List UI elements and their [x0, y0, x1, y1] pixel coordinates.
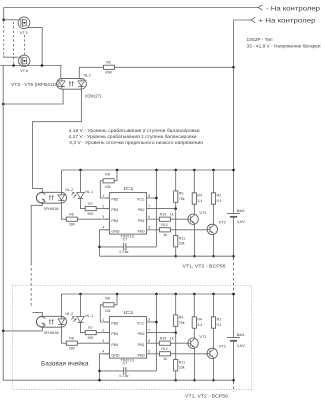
wire: cell1 SFH6156 LED anode from chain	[33, 189, 43, 193]
svg-text:VT1: VT1	[199, 334, 206, 339]
svg-text:+ На контролер: + На контролер	[259, 18, 317, 25]
svg-text:Bat1: Bat1	[237, 208, 246, 213]
svg-text:IC1: IC1	[124, 310, 135, 315]
svg-text:VT2: VT2	[219, 220, 226, 225]
resistor cell1 R6	[66, 217, 77, 221]
wire: cell1 VT1 emitter to bottom rail	[193, 225, 195, 257]
wire: cell2 VT1 emitter to bottom rail	[193, 349, 195, 381]
wire: cell1 GND pin to bottom rail	[100, 230, 110, 256]
svg-text:5: 5	[148, 350, 150, 354]
svg-text:VT1, VT2 - BCP56: VT1, VT2 - BCP56	[183, 263, 227, 268]
wire: cell1 R11 to bottom rail	[175, 247, 177, 256]
svg-text:PB0: PB0	[138, 353, 145, 357]
resistor cell1 R9	[174, 191, 178, 202]
svg-text:1k: 1k	[170, 213, 174, 217]
svg-text:R2: R2	[217, 318, 222, 322]
svg-text:R7: R7	[88, 326, 93, 330]
pin cell2 1 stub	[105, 321, 110, 323]
svg-text:PB4: PB4	[111, 219, 118, 223]
wire: cell1 PB0 to R12	[147, 229, 160, 231]
resistor cell2 R2	[211, 317, 215, 328]
svg-text:PB1: PB1	[138, 343, 145, 347]
resistor R5	[104, 65, 115, 69]
pin cell1 1 stub	[105, 197, 110, 199]
resistor cell2 R7	[85, 331, 96, 335]
svg-text:VT1: VT1	[199, 210, 206, 215]
svg-text:4: 4	[102, 226, 104, 230]
resistor cell1 R8	[103, 179, 114, 183]
wire: cell1 R6 to PB4	[77, 218, 109, 220]
svg-text:SFH6156: SFH6156	[44, 206, 60, 211]
svg-text:Bat1: Bat1	[237, 332, 246, 337]
svg-text:VOM1271: VOM1271	[85, 94, 103, 99]
transistor cell1 VT2 BCP56	[207, 224, 217, 234]
wire: cell1 battery top lead	[233, 170, 235, 214]
node: cell2 battery bottom junction	[232, 379, 235, 382]
svg-text:6: 6	[148, 215, 150, 219]
svg-text:- На контролер: - На контролер	[266, 5, 321, 12]
svg-text:3,4: 3,4	[197, 323, 202, 327]
wire: cell1 SFH6156 emitter to R6	[62, 203, 67, 219]
svg-text:VT.6: VT.6	[20, 68, 28, 73]
svg-text:9,1: 9,1	[217, 199, 222, 203]
wire: dashed left rail (hidden gates)	[3, 22, 5, 56]
wire: dashed battery chain below	[233, 382, 235, 393]
svg-text:PB3: PB3	[111, 208, 118, 212]
wire: cell2 SFH6156 LED anode from chain	[33, 313, 43, 317]
svg-text:33k: 33k	[179, 242, 185, 246]
svg-text:0,1 мк: 0,1 мк	[119, 374, 128, 378]
wire: cell2 SFH6156 emitter to R6	[62, 327, 67, 343]
wire: cell2 R4 to VT1 collector	[193, 328, 195, 338]
svg-text:HL.2: HL.2	[65, 188, 73, 192]
svg-text:R4: R4	[197, 194, 202, 198]
node: cell1 R9 top junction	[174, 169, 177, 172]
pin cell2 2 stub	[105, 332, 110, 334]
svg-text:SFH6156: SFH6156	[44, 330, 60, 335]
resistor cell1 R11	[174, 236, 178, 247]
wire: cell2 VCC pin stub	[147, 321, 157, 323]
svg-text:1k: 1k	[170, 337, 174, 341]
wire: + rail down to cell 1	[233, 67, 235, 170]
node: gate bus junction	[12, 64, 15, 67]
wire: cell1 C7 right lead to VCC	[126, 246, 156, 248]
wire: cell1 R7 to PB3	[96, 208, 109, 210]
wire: cell2 R2 top lead	[213, 294, 215, 317]
node: cell1 C7 gnd junction	[98, 246, 101, 249]
wire: dashed chain link between cells	[30, 263, 32, 307]
resistor cell1 R2	[211, 193, 215, 204]
transistor VT6 (IRFB4110)	[19, 55, 30, 66]
node: cell2 R4 top junction	[193, 293, 196, 296]
node: cell2 VT2 emitter junction	[212, 379, 215, 382]
wire: cell2 R9 to PB2 node	[175, 326, 177, 332]
battery cell1 Bat1	[227, 213, 240, 215]
svg-text:R5: R5	[106, 61, 111, 65]
resistor cell2 R4	[192, 317, 196, 328]
svg-text:2: 2	[102, 205, 104, 209]
optocoupler cell1 SFH6156	[37, 192, 67, 203]
svg-text:PB2: PB2	[138, 208, 145, 212]
svg-text:R12: R12	[161, 223, 168, 227]
wire: cell1 cell - rail	[100, 255, 234, 257]
node: cell2 HL1 anode junction	[79, 293, 82, 296]
wire: HL2 cathode down to left rail	[3, 89, 63, 104]
wire: cell1 + rail to R8	[114, 170, 117, 181]
node: cell1 VT2 emitter junction	[212, 255, 215, 258]
pin cell2 4 stub	[105, 353, 110, 355]
boundary: base cell dashed box	[13, 285, 252, 389]
svg-text:C7: C7	[123, 362, 128, 366]
node: cell2 divider node	[174, 331, 177, 334]
wire: cell2 LED cathode to left rail	[3, 327, 42, 331]
wire: cell2 R10 to VT1 base	[170, 342, 189, 344]
svg-text:4: 4	[102, 350, 104, 354]
wire: cell1 HL1 cathode to R7	[81, 198, 86, 208]
svg-text:R6: R6	[69, 213, 74, 217]
wire: cell1 PB1 to R10	[147, 218, 160, 220]
wire: cell1 SFH6156 collector up to + rail	[61, 170, 63, 192]
wire: cell1 R4 to VT1 collector	[193, 204, 195, 214]
pin cell1 2 stub	[105, 208, 110, 210]
svg-text:R11: R11	[179, 236, 185, 240]
svg-text:HL2: HL2	[84, 72, 91, 77]
svg-text:R8: R8	[105, 296, 110, 300]
svg-text:3,3 V - Уровень отсечки пред: 3,3 V - Уровень отсечки предельного низк…	[69, 140, 203, 145]
wire: cell2 R4 top lead	[193, 294, 195, 317]
svg-text:390: 390	[69, 223, 75, 227]
node: VT3 gate junction	[2, 19, 4, 22]
svg-text:PB0: PB0	[138, 229, 145, 233]
wire: VT3 gate	[4, 19, 18, 21]
svg-text:PB2: PB2	[138, 332, 145, 336]
node: cell1 R4 top junction	[193, 169, 196, 172]
svg-text:9,1: 9,1	[217, 323, 222, 327]
arrows: cell2 HL1 emission	[71, 316, 74, 319]
wire: cell1 cell + rail	[62, 169, 234, 171]
svg-text:R7: R7	[88, 202, 93, 206]
node: cell2 VCC pin junction	[155, 321, 158, 324]
wire: cell1 R9 to PB2 node	[175, 202, 177, 208]
svg-text:4,17 V - Уровень срабатывания: 4,17 V - Уровень срабатывания 1 ступени …	[69, 134, 198, 139]
svg-text:6: 6	[148, 339, 150, 343]
connector X1: - to controller	[258, 5, 262, 10]
wire: cell1 R10 to VT1 base	[170, 218, 189, 220]
wire: cell2 battery bottom lead	[233, 341, 235, 380]
pin cell1 4 stub	[105, 229, 110, 231]
wire: dashed battery chain link	[233, 258, 235, 293]
wire: cell1 R12 to VT2 base	[170, 229, 207, 231]
wire: VT6 gate	[4, 56, 19, 58]
wire: cell2 divider to R11	[175, 333, 177, 360]
svg-text:VT3 - VT6 (IRFB4110): VT3 - VT6 (IRFB4110)	[11, 82, 60, 87]
svg-text:R11: R11	[179, 360, 185, 364]
wire: cell2 GND pin to bottom rail	[100, 354, 110, 380]
op-amp cell1 IC1 ATtiny13 body	[109, 193, 146, 235]
svg-text:R12: R12	[161, 347, 168, 351]
connector X2: + to controller	[251, 17, 255, 22]
node: cell2 C7 gnd junction	[98, 370, 101, 373]
svg-text:R9: R9	[179, 192, 184, 196]
node: cell1 divider node	[174, 207, 177, 210]
wire: cell1 VT2 emitter to bottom rail	[213, 235, 215, 257]
wire: cell2 R9 top lead	[175, 294, 177, 315]
svg-text:390: 390	[69, 347, 75, 351]
node: cell2 R11 bottom junction	[174, 379, 177, 382]
svg-text:4,18 V - Уровень срабатывания: 4,18 V - Уровень срабатывания 2 ступени …	[69, 128, 201, 133]
node: cell2 battery + rail junction	[232, 293, 235, 296]
wire: VT3 source to common node	[26, 28, 42, 66]
capacitor cell1 C7	[123, 243, 125, 250]
wire: HL2 photo output - down, to cell chain	[33, 89, 82, 188]
svg-text:R6: R6	[69, 337, 74, 341]
svg-text:PB4: PB4	[111, 343, 118, 347]
wire: cell1 R9 top lead	[175, 170, 177, 191]
svg-text:3: 3	[102, 339, 104, 343]
wire: cell2 R11 to bottom rail	[175, 371, 177, 380]
wire: cell2 R6 to PB4	[77, 342, 109, 344]
svg-text:33k: 33k	[179, 366, 185, 370]
svg-text:VCC: VCC	[137, 322, 145, 326]
node: VT3 source junction	[41, 64, 44, 67]
svg-text:R4: R4	[197, 318, 202, 322]
wire: cell1 R2 to VT2 collector	[213, 204, 215, 224]
wire: cell2 battery top lead	[233, 294, 235, 338]
resistor cell2 R10	[159, 341, 170, 345]
transistor cell1 VT1 BCP56	[188, 214, 198, 224]
svg-text:R10: R10	[160, 337, 167, 341]
resistor cell1 R12	[159, 228, 170, 232]
node: cell1 VCC rail junction	[155, 169, 158, 172]
battery cell2 Bat1	[227, 337, 240, 339]
svg-text:PB1: PB1	[138, 219, 145, 223]
wire: cell2 R7 to PB3	[96, 332, 109, 334]
svg-text:43R: 43R	[105, 71, 112, 75]
svg-text:390: 390	[87, 212, 93, 216]
wire: cell2 SFH6156 collector up to + rail	[61, 294, 63, 316]
node: cell2 VT1 emitter junction	[193, 379, 196, 382]
svg-text:Базовая ячейка: Базовая ячейка	[41, 360, 89, 368]
svg-text:HL.2: HL.2	[65, 312, 73, 316]
wire: cell1 R4 top lead	[193, 170, 195, 193]
svg-text:0,1 мк: 0,1 мк	[119, 250, 128, 254]
svg-text:10k: 10k	[105, 185, 111, 189]
wire: cell2 HL1 cathode to R7	[81, 322, 86, 332]
wire: cell2 HL1 anode	[80, 294, 82, 316]
optocoupler cell2 SFH6156	[36, 316, 66, 327]
node: cell2 R8 junction on + rail	[116, 293, 119, 296]
capacitor cell2 C7	[123, 367, 125, 374]
wire: + rail to controller	[234, 20, 251, 66]
svg-text:390: 390	[87, 336, 93, 340]
wire: cell2 cell - rail	[100, 379, 234, 381]
wire: cell1 divider to R11	[175, 209, 177, 236]
svg-text:1k: 1k	[163, 233, 167, 237]
svg-text:R8: R8	[105, 172, 110, 176]
resistor cell2 R6	[66, 341, 77, 345]
node: cell1 VT1 emitter junction	[193, 255, 196, 258]
wire: source bus	[1, 65, 62, 67]
node: + rail junction	[232, 66, 235, 69]
wire: cell1 R2 top lead	[213, 170, 215, 193]
wire: cell1 SFH6156 LED cathode to next cell	[31, 203, 42, 263]
led cell2 HL1	[77, 316, 85, 322]
node: cell2 R2 top junction	[212, 293, 215, 296]
transistor cell2 VT2 BCP56	[207, 348, 217, 358]
svg-text:IC1: IC1	[124, 186, 135, 191]
node: cell2 VCC rail junction	[155, 293, 158, 296]
svg-text:C7: C7	[123, 238, 128, 242]
wire: cell2 cell + rail	[62, 293, 234, 295]
svg-text:3: 3	[102, 215, 104, 219]
wire: dashed drain bus VT4/VT5	[24, 35, 26, 55]
led cell1 HL1	[77, 192, 85, 198]
wire: cell2 VT2 emitter to bottom rail	[213, 359, 215, 381]
resistor cell2 R12	[159, 352, 170, 356]
wire: left rail to bottom return	[3, 331, 99, 380]
wire: cell2 C7 right lead to VCC	[126, 370, 156, 372]
svg-text:PB3: PB3	[111, 332, 118, 336]
svg-text:75k: 75k	[179, 197, 185, 201]
pin cell1 3 stub	[105, 218, 110, 220]
node: cell1 R8 junction on + rail	[116, 169, 119, 172]
svg-text:75k: 75k	[179, 321, 185, 325]
wire: cell1 VCC column	[155, 170, 157, 247]
svg-text:VT1, VT2 - BCP56: VT1, VT2 - BCP56	[185, 393, 229, 398]
svg-text:2: 2	[102, 329, 104, 333]
wire: left rail top segment	[3, 8, 5, 20]
svg-text:R2: R2	[217, 194, 222, 198]
svg-text:8: 8	[148, 318, 150, 322]
node: cell1 battery bottom junction	[232, 255, 235, 258]
resistor cell1 R4	[192, 193, 196, 204]
resistor cell1 R10	[159, 217, 170, 221]
svg-text:33 - 41,8 V - Напряжение батар: 33 - 41,8 V - Напряжение батареи	[247, 44, 322, 49]
wire: cell2 C7 left lead	[100, 370, 124, 372]
svg-text:HL.1: HL.1	[85, 190, 93, 194]
svg-text:10k: 10k	[105, 309, 111, 313]
resistor cell1 R7	[85, 207, 96, 211]
wire: cell1 HL1 anode	[80, 170, 82, 192]
svg-text:GND: GND	[111, 229, 120, 233]
svg-text:1: 1	[102, 318, 104, 322]
wire: cell2 PB1 to R10	[147, 342, 160, 344]
node: cell1 R2 top junction	[212, 169, 215, 172]
node: cell1 R11 bottom junction	[174, 255, 177, 258]
wire: cell2 PB0 to R12	[147, 353, 160, 355]
wire: cell2 R8 to PB5/reset	[100, 305, 109, 322]
node: cell2 gnd rail junction	[98, 379, 101, 382]
resistor cell2 R11	[174, 360, 178, 371]
wire: cell2 R12 to VT2 base	[170, 353, 207, 355]
wire: cell1 R8 to PB5/reset	[100, 181, 109, 198]
optocoupler HL2 VOM1271	[57, 78, 87, 89]
svg-text:1k: 1k	[163, 357, 167, 361]
wire: cell2 PB2 sense wire	[147, 332, 176, 334]
svg-text:8: 8	[148, 194, 150, 198]
wire: cell1 VCC pin stub	[147, 197, 157, 199]
node: cell2 R9 top junction	[174, 293, 177, 296]
arrows: cell1 HL1 emission	[71, 192, 74, 195]
transistor cell2 VT1 BCP56	[188, 338, 198, 348]
node: left rail junction at cell2	[2, 330, 4, 333]
svg-text:3,4: 3,4	[197, 199, 202, 203]
svg-text:PB5: PB5	[111, 322, 118, 326]
svg-text:5: 5	[148, 226, 150, 230]
wire: R5 to + rail	[115, 66, 234, 68]
wire: cell2 + rail to R8	[114, 294, 117, 305]
svg-text:VT.3: VT.3	[20, 30, 28, 35]
node: cell1 VCC pin junction	[155, 197, 158, 200]
svg-text:R10: R10	[160, 213, 167, 217]
wire: dashed gate bus VT4/VT5	[13, 22, 15, 65]
wire: source bus down to HL2 anode	[60, 66, 62, 79]
wire: cell1 PB2 sense wire	[147, 208, 176, 210]
pin cell2 3 stub	[105, 342, 110, 344]
op-amp cell2 IC1 ATtiny13 body	[109, 317, 146, 359]
node: chain junction on cell2 + rail	[232, 293, 235, 296]
node: cell1 battery + rail junction	[232, 169, 235, 172]
wire: cell1 C7 left lead	[100, 246, 124, 248]
svg-text:7: 7	[148, 205, 150, 209]
node: left rail junction at HL2	[2, 103, 4, 106]
svg-text:10S2P - Тип: 10S2P - Тип	[247, 37, 274, 42]
svg-text:VCC: VCC	[137, 198, 145, 202]
svg-text:VT2: VT2	[219, 344, 226, 349]
svg-text:HL.1: HL.1	[85, 314, 93, 318]
wire: cell2 R2 to VT2 collector	[213, 328, 215, 348]
resistor cell2 R9	[174, 315, 178, 326]
node: cell1 HL1 anode junction	[79, 169, 82, 172]
svg-text:1: 1	[102, 194, 104, 198]
svg-text:GND: GND	[111, 353, 120, 357]
svg-text:R9: R9	[179, 316, 184, 320]
wire: negative output rail to controller	[4, 7, 258, 9]
wire: left rail long run	[2, 66, 4, 331]
svg-text:PB5: PB5	[111, 198, 118, 202]
resistor cell2 R8	[103, 303, 114, 307]
svg-text:4,0V: 4,0V	[237, 343, 246, 348]
wire: cell2 VCC column	[155, 294, 157, 371]
transistor VT3 (IRFB4110)	[18, 17, 30, 29]
svg-text:4,0V: 4,0V	[237, 219, 246, 224]
wire: HL2 photo output + up	[79, 67, 103, 78]
svg-text:7: 7	[148, 329, 150, 333]
wire: cell1 battery bottom lead	[233, 217, 235, 256]
